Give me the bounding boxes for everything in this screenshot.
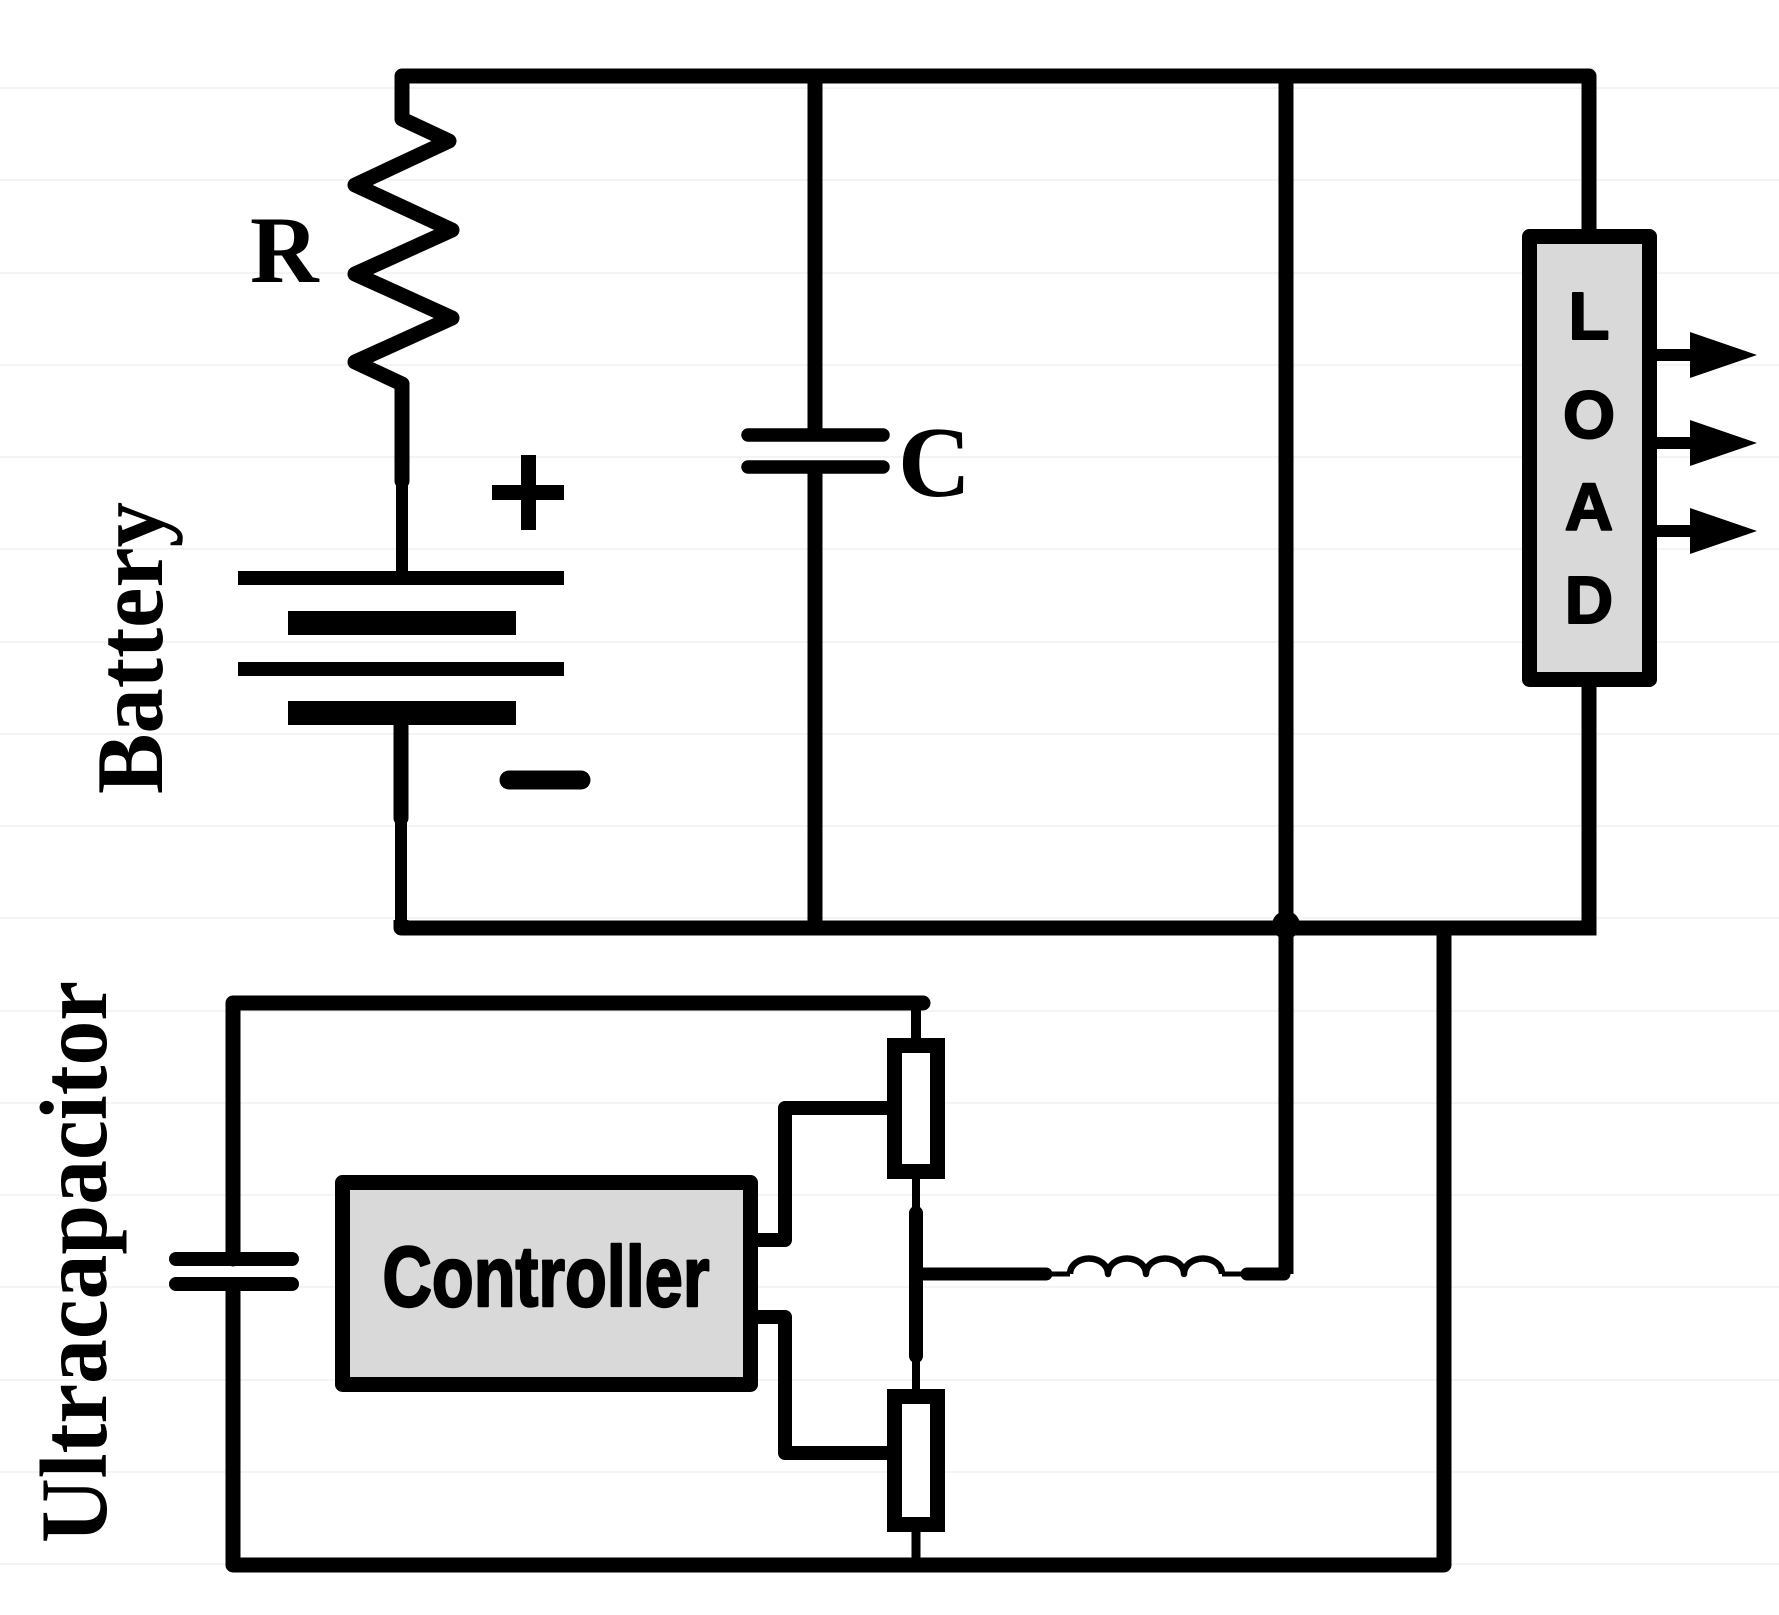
controller box	[343, 1183, 751, 1385]
wire top rail and right vertical to LOAD top	[402, 76, 1589, 229]
resistor R	[355, 119, 452, 384]
label - (battery minus)	[509, 771, 581, 790]
wire stub top rail to switch S1	[911, 1003, 921, 1040]
wire ultracap top rail and left vertical	[233, 1003, 923, 1259]
inductor L1 right lead	[1222, 1272, 1247, 1277]
wire switch S2 to ultracap bottom rail	[912, 1532, 921, 1565]
svg-text:R: R	[250, 197, 320, 303]
battery BT1 plate 3 (long positive)	[238, 662, 564, 676]
label +	[492, 455, 564, 530]
arrow output 1	[1651, 332, 1757, 378]
battery BT1 plate 1 (long positive)	[238, 571, 564, 585]
svg-text:C: C	[898, 406, 971, 518]
svg-text:Ultracapacitor: Ultracapacitor	[21, 981, 127, 1543]
ultracapacitor plate bottom	[176, 1277, 292, 1291]
switch S1 (upper)	[895, 1046, 938, 1172]
LOAD box U-load	[1530, 237, 1650, 680]
wire battery negative to bottom rail and bottom rail to right	[394, 725, 409, 818]
svg-text:O: O	[1563, 378, 1615, 453]
svg-text:D: D	[1565, 563, 1613, 638]
inductor L1 left lead	[916, 1268, 1046, 1281]
arrow output 3	[1651, 508, 1757, 554]
wire resistor to battery positive plate	[395, 384, 410, 481]
svg-text:L: L	[1569, 279, 1610, 354]
wire controller upper pin to switch S1 gate	[758, 1108, 890, 1240]
ultracapacitor plate top	[176, 1252, 292, 1266]
wire controller lower pin to switch S2 gate	[758, 1317, 890, 1453]
wire capacitor C bottom lead	[808, 473, 823, 928]
inductor L1 coil	[1070, 1258, 1222, 1274]
svg-text:A: A	[1565, 470, 1613, 545]
switch S2 (lower)	[895, 1397, 938, 1525]
svg-text:Battery: Battery	[77, 502, 183, 794]
node junction dot at bottom rail crossing	[1272, 911, 1300, 939]
wire between switches	[912, 1179, 920, 1216]
wire capacitor C top lead	[808, 76, 823, 429]
svg-text:Controller: Controller	[383, 1230, 710, 1325]
arrow output 2	[1651, 420, 1757, 466]
wire LOAD bottom to bottom rail	[1582, 681, 1597, 936]
battery BT1 plate 4 (short thick negative)	[288, 701, 516, 725]
battery BT1 plate 2 (short thick negative)	[288, 611, 516, 635]
wire ultracap loop: right drop, bottom rail and left riser	[233, 933, 1444, 1565]
wire mid vertical from top rail to inductor corner	[1279, 76, 1294, 1274]
capacitor C plate top	[748, 428, 883, 442]
capacitor C plate bottom	[748, 460, 883, 474]
